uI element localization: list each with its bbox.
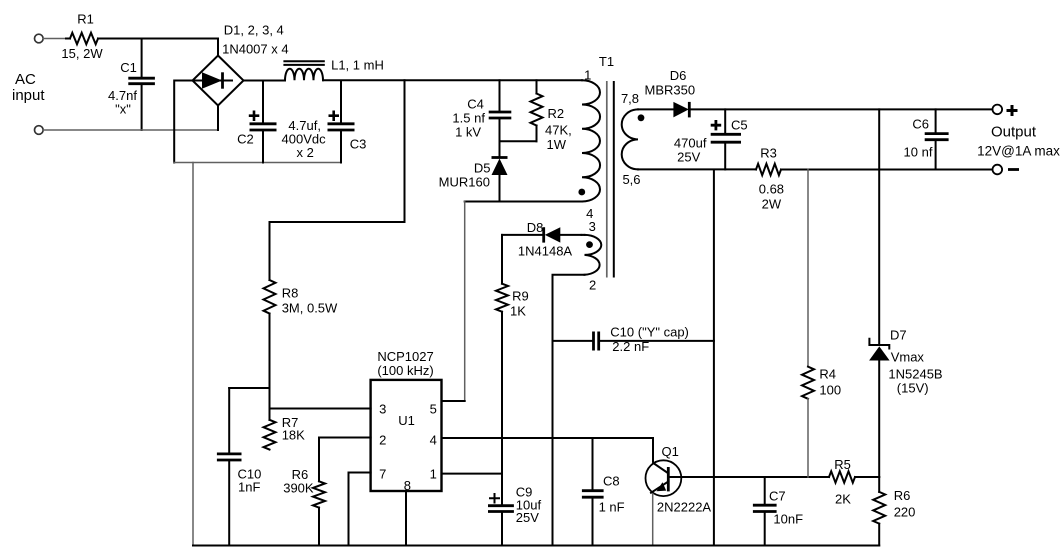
svg-text:C5: C5 — [731, 118, 748, 133]
transformer T1 primary winding — [582, 68, 600, 222]
resistor R6 (390K) — [283, 467, 325, 546]
svg-text:D8: D8 — [527, 220, 544, 235]
svg-text:(15V): (15V) — [897, 381, 929, 396]
svg-text:R6: R6 — [894, 488, 911, 503]
wire U1 pin 1 to R9/C9 — [442, 473, 503, 475]
svg-text:R2: R2 — [548, 106, 565, 121]
svg-text:2.2 nF: 2.2 nF — [612, 339, 649, 354]
svg-text:(100 kHz): (100 kHz) — [377, 363, 433, 378]
wire D5 anode to U1 pin 5 (drain) — [464, 202, 466, 402]
capacitor C9 (10uf 25V) — [488, 485, 541, 546]
svg-text:1nF: 1nF — [238, 480, 260, 495]
AC input terminal (bottom) — [35, 126, 44, 135]
svg-text:C7: C7 — [769, 489, 786, 504]
T1 primary polarity dot — [578, 189, 585, 196]
svg-text:U1: U1 — [398, 413, 415, 428]
svg-text:AC: AC — [15, 71, 36, 88]
svg-text:T1: T1 — [599, 54, 614, 69]
svg-text:5,6: 5,6 — [622, 172, 640, 187]
node AC input label — [12, 71, 45, 104]
wire HV rail: L1 to T1 primary pin 1 — [323, 79, 582, 81]
zener diode D7 (1N5245B) — [869, 328, 943, 478]
wire U1 pin 8 to ground — [405, 491, 407, 546]
svg-text:Output: Output — [991, 124, 1037, 141]
T1 secondary polarity dot — [638, 114, 645, 121]
svg-text:3M, 0.5W: 3M, 0.5W — [282, 301, 338, 316]
capacitor C4 — [452, 80, 511, 141]
svg-text:L1, 1 mH: L1, 1 mH — [331, 58, 384, 73]
svg-text:1N4148A: 1N4148A — [518, 244, 573, 259]
wire R3 to output minus terminal — [781, 169, 993, 171]
wire secondary gnd drop — [713, 170, 715, 546]
wire U1 pin 5 stub — [442, 400, 465, 402]
wire output+ to D7 — [878, 109, 880, 343]
svg-text:1: 1 — [584, 68, 591, 83]
svg-text:10 nf: 10 nf — [904, 145, 933, 160]
svg-text:R8: R8 — [282, 286, 299, 301]
resistor R7 (18K) — [264, 415, 306, 450]
svg-text:47K,: 47K, — [545, 123, 572, 138]
wire D8 to T1 pin 3 — [582, 234, 585, 236]
svg-text:D7: D7 — [890, 328, 907, 343]
AC input terminal (top) — [35, 34, 44, 43]
bridge rectifier D1-D4 (1N4007 x 4) — [193, 23, 289, 106]
node output label — [977, 124, 1060, 159]
svg-text:1: 1 — [430, 467, 437, 482]
diode D8 (1N4148A) — [518, 220, 582, 259]
svg-text:1K: 1K — [510, 304, 526, 319]
svg-text:390K: 390K — [283, 481, 314, 496]
wire aux top: D8 branch corner — [502, 234, 544, 236]
capacitor C6 — [904, 109, 949, 169]
wire D5 anode to T1 pin 4 — [465, 201, 582, 203]
resistor R4 (100) — [802, 170, 841, 478]
resistor R2 — [531, 80, 572, 152]
svg-text:C3: C3 — [350, 137, 367, 152]
wire Q1 base to feedback node — [681, 476, 829, 478]
svg-text:25V: 25V — [677, 150, 700, 165]
svg-text:Q1: Q1 — [662, 444, 679, 459]
svg-text:8: 8 — [404, 478, 411, 493]
wire bridge left corner to DC- rail — [174, 81, 192, 163]
output terminal minus — [993, 165, 1020, 175]
capacitor C10 (1nF) — [217, 388, 270, 546]
IC U1 NCP1027 — [371, 349, 442, 493]
wire primary ground drop (left vertical) — [192, 163, 194, 546]
wire D6 to output plus terminal — [689, 108, 992, 110]
svg-text:Vmax: Vmax — [891, 350, 925, 365]
wire Q1 emitter to ground — [652, 494, 654, 546]
capacitor C7 (10nF) — [753, 477, 803, 546]
svg-text:R9: R9 — [512, 289, 529, 304]
diode D6 (MBR350) — [645, 68, 696, 117]
svg-text:D6: D6 — [670, 68, 687, 83]
resistor R5 (2K) — [829, 457, 879, 507]
transformer T1 label — [599, 54, 614, 69]
svg-text:100: 100 — [819, 383, 841, 398]
svg-text:x 2: x 2 — [297, 145, 314, 160]
svg-text:3: 3 — [589, 219, 596, 234]
wire AC neutral: bottom terminal to bridge bottom corner — [43, 129, 218, 131]
wire T1 pin 7,8 to D6 — [638, 108, 673, 110]
svg-text:"x": "x" — [115, 102, 131, 117]
svg-text:R5: R5 — [834, 457, 851, 472]
T1 aux polarity dot — [586, 241, 593, 248]
svg-text:10nF: 10nF — [773, 512, 803, 527]
transformer T1 aux winding — [585, 219, 602, 293]
svg-text:MBR350: MBR350 — [645, 83, 696, 98]
svg-text:1W: 1W — [547, 137, 567, 152]
svg-text:D5: D5 — [474, 161, 491, 176]
resistor R1 — [61, 12, 103, 62]
wire AC live: top terminal to R1 — [43, 38, 66, 40]
wire bridge right corner to L1 — [244, 80, 286, 82]
svg-text:R1: R1 — [77, 12, 94, 27]
transformer T1 secondary winding — [621, 91, 641, 187]
resistor R8 — [264, 222, 339, 420]
wire HV rail to R8 branch — [270, 80, 405, 222]
wire secondary return: T1 pin 5,6 to R3 — [638, 168, 756, 170]
svg-text:1 nF: 1 nF — [599, 500, 625, 515]
svg-text:R3: R3 — [760, 146, 777, 161]
svg-text:C10 ("Y" cap): C10 ("Y" cap) — [610, 325, 689, 340]
svg-text:2: 2 — [589, 278, 596, 293]
svg-text:18K: 18K — [282, 428, 305, 443]
svg-text:3: 3 — [379, 402, 386, 417]
svg-text:25V: 25V — [516, 510, 539, 525]
svg-text:220: 220 — [894, 505, 916, 520]
svg-text:input: input — [12, 87, 45, 104]
svg-text:12V@1A max: 12V@1A max — [977, 144, 1060, 159]
capacitor C3 — [328, 81, 367, 163]
wire U1 pin 3 to divider — [270, 408, 371, 410]
svg-text:2N2222A: 2N2222A — [657, 500, 712, 515]
svg-text:2: 2 — [379, 433, 386, 448]
svg-text:R4: R4 — [819, 367, 836, 382]
svg-text:4: 4 — [430, 433, 437, 448]
svg-text:1 kV: 1 kV — [455, 125, 481, 140]
transformer T1 core — [607, 81, 614, 278]
svg-text:2W: 2W — [762, 197, 782, 212]
capacitor C5 — [674, 109, 748, 169]
svg-text:NCP1027: NCP1027 — [377, 349, 433, 364]
wire DC- rail — [174, 162, 341, 164]
svg-text:1.5 nf: 1.5 nf — [452, 111, 485, 126]
svg-text:D1, 2, 3, 4: D1, 2, 3, 4 — [224, 23, 284, 38]
svg-text:C1: C1 — [120, 60, 137, 75]
svg-text:C4: C4 — [467, 97, 484, 112]
svg-text:470uf: 470uf — [674, 136, 707, 151]
resistor R9 (1K) — [496, 235, 529, 505]
svg-text:0.68: 0.68 — [759, 182, 784, 197]
wire bridge bottom corner stub — [217, 106, 219, 130]
resistor R3 — [756, 146, 784, 212]
resistor R6 (220) — [873, 477, 915, 546]
wire snubber bottom: C4 to R2 — [500, 140, 537, 142]
capacitor C2 — [237, 81, 276, 163]
wire U1 pin 2 to R6 — [319, 438, 371, 482]
value label C2/C3 (4.7uf 400Vdc x 2) — [282, 118, 327, 160]
inductor L1 — [284, 58, 383, 81]
wire U1 pin 7 to ground — [349, 473, 371, 546]
transistor Q1 (2N2222A) — [646, 444, 712, 515]
svg-text:7,8: 7,8 — [621, 91, 639, 106]
svg-text:15, 2W: 15, 2W — [61, 46, 103, 61]
diode D5 (MUR160) — [439, 141, 508, 201]
svg-text:2K: 2K — [835, 492, 851, 507]
capacitor C8 (1 nF) — [582, 438, 625, 546]
wire R1 to bridge top corner — [98, 39, 218, 56]
capacitor C10 Y-cap (2.2 nF) — [553, 325, 714, 355]
svg-text:C6: C6 — [912, 117, 929, 132]
wire aux return: T1 pin 2 to ground — [553, 275, 585, 546]
svg-text:5: 5 — [430, 402, 437, 417]
wire bottom ground rail — [193, 545, 879, 547]
wire U1 pin 4 to Q1 collector — [442, 438, 654, 462]
output terminal plus — [993, 105, 1018, 116]
svg-text:C8: C8 — [603, 474, 620, 489]
svg-text:1N5245B: 1N5245B — [888, 367, 942, 382]
capacitor C1 — [108, 39, 155, 131]
svg-text:7: 7 — [379, 467, 386, 482]
svg-text:MUR160: MUR160 — [439, 175, 490, 190]
svg-text:C2: C2 — [237, 132, 254, 147]
svg-text:1N4007 x 4: 1N4007 x 4 — [222, 42, 289, 57]
